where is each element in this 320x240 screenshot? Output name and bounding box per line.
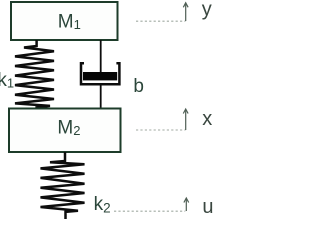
arrow u [184, 198, 189, 211]
spring k2 [41, 152, 85, 219]
svg-text:y: y [202, 0, 212, 21]
dashed reference line y [136, 20, 186, 22]
damper rod top [100, 40, 102, 75]
svg-text:x: x [202, 108, 212, 130]
svg-text:u: u [202, 196, 213, 218]
arrow x [183, 109, 188, 130]
dashed reference line u [114, 210, 185, 212]
spring k1 [15, 40, 54, 109]
arrow y [183, 3, 188, 21]
dashed reference line x [136, 129, 186, 131]
damper piston [83, 72, 117, 80]
mass M2 [9, 109, 121, 153]
mass M1 [11, 2, 118, 40]
damper rod bottom [100, 85, 102, 109]
damper cup [81, 63, 119, 84]
svg-text:b: b [133, 76, 144, 97]
